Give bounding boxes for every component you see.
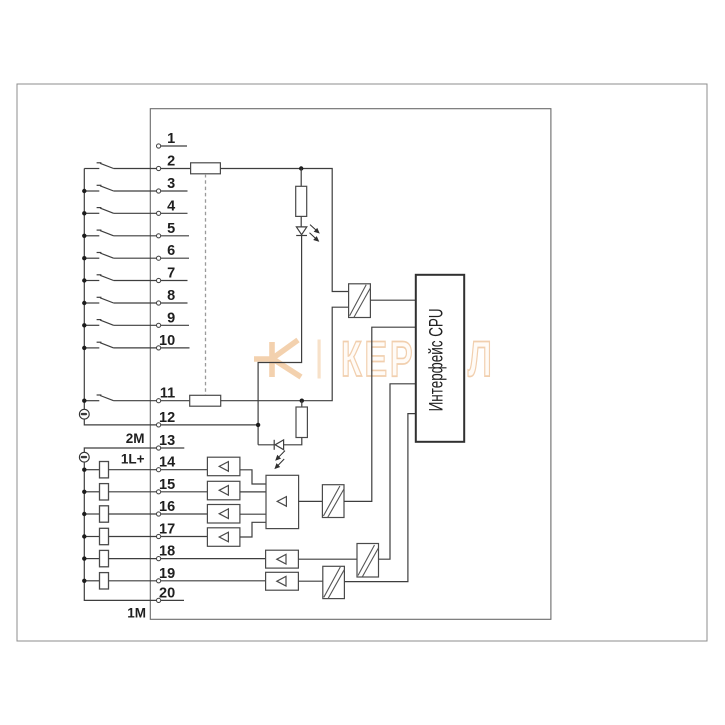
svg-text:19: 19 xyxy=(159,566,175,582)
wire U19 to barrier U4 xyxy=(298,580,322,582)
wire terminal 11 to resistor xyxy=(161,400,190,402)
optocoupler U19 (output 19) xyxy=(266,572,299,590)
terminal 10 stub xyxy=(161,347,190,349)
terminal 10 xyxy=(157,333,176,350)
wire terminal 12 to LED return xyxy=(161,424,258,426)
terminal 14 xyxy=(157,455,176,472)
junction on bus row 7 xyxy=(82,278,86,282)
input resistor R3 (channel 11) xyxy=(190,395,221,406)
wire U16 to driver xyxy=(240,513,266,515)
wire terminal 17 to optocoupler xyxy=(161,536,208,538)
wire R2 to LED xyxy=(300,216,302,227)
terminal 11 xyxy=(157,386,176,403)
status LED D1 (channel 2) xyxy=(296,227,307,236)
svg-text:18: 18 xyxy=(159,544,175,560)
wire terminal 2 to resistor xyxy=(161,168,191,170)
wire U2 to CPU interface xyxy=(344,327,416,501)
wire terminal 16 to optocoupler xyxy=(161,513,208,515)
wire U1 to CPU interface xyxy=(370,299,415,301)
svg-text:10: 10 xyxy=(159,333,175,349)
input bus (top, to M symbol) xyxy=(83,169,85,410)
wire U3 to CPU interface xyxy=(379,384,416,559)
CPU interface block xyxy=(416,275,464,442)
terminal 13 stub xyxy=(161,447,185,449)
switch contact S6 (input 7) xyxy=(84,275,156,281)
junction on 1L+ bus row 15 xyxy=(82,490,86,494)
node LED return / 2M xyxy=(256,423,260,427)
switch contact S9 (input 10) xyxy=(84,342,156,348)
svg-text:20: 20 xyxy=(159,585,175,601)
junction on 1L+ bus row 18 xyxy=(82,556,86,560)
wire U4 to CPU interface xyxy=(344,414,415,582)
terminal 20 stub xyxy=(161,599,184,601)
junction on bus row 3 xyxy=(82,189,86,193)
isolation barrier U4 (output 19) xyxy=(323,566,345,598)
wire R4 to LED D2 xyxy=(284,438,302,445)
junction on bus row 10 xyxy=(82,346,86,350)
terminal 3 xyxy=(157,176,176,193)
terminal 1 xyxy=(157,131,176,148)
switch contact S7 (input 8) xyxy=(84,297,156,303)
svg-text:2: 2 xyxy=(167,154,175,170)
svg-text:14: 14 xyxy=(159,455,175,471)
optocoupler U14 (output 14) xyxy=(207,457,240,476)
svg-text:17: 17 xyxy=(159,522,175,538)
wire U15 to driver xyxy=(240,491,266,493)
module box xyxy=(150,109,551,620)
svg-text:2M: 2M xyxy=(126,431,145,446)
terminal 4 stub xyxy=(161,212,188,214)
load resistor on output 16 xyxy=(84,513,99,515)
load resistor on output 14 xyxy=(84,469,99,471)
switch contact S1 (input 2) xyxy=(84,163,156,169)
junction on 1L+ bus row 14 xyxy=(82,468,86,472)
watermark logo xyxy=(254,340,301,377)
wire U18 to barrier U3 xyxy=(298,558,357,560)
junction on bus row 11 xyxy=(82,399,86,403)
terminal 9 stub xyxy=(161,324,189,326)
terminal 16 xyxy=(157,499,176,516)
terminal 8 stub xyxy=(161,302,188,304)
junction on bus row 6 xyxy=(82,256,86,260)
junction on bus row 9 xyxy=(82,323,86,327)
node channel 2 LED tap xyxy=(299,166,303,170)
svg-text:9: 9 xyxy=(167,310,175,326)
wire U14 to driver xyxy=(240,470,266,484)
svg-text:11: 11 xyxy=(160,386,175,402)
wire D1 cathode to 2M rail xyxy=(258,236,302,445)
switch contact S3 (input 4) xyxy=(84,208,156,214)
terminal 13 xyxy=(157,433,176,450)
junction on bus row 8 xyxy=(82,301,86,305)
svg-text:16: 16 xyxy=(159,499,175,515)
svg-text:13: 13 xyxy=(159,433,175,449)
terminal 18 xyxy=(157,544,176,561)
svg-text:15: 15 xyxy=(159,477,175,493)
LED series resistor R4 xyxy=(296,407,307,438)
load resistor on output 18 xyxy=(84,558,99,560)
LED D1 emission arrows xyxy=(310,225,319,241)
junction on 1L+ bus row 16 xyxy=(82,512,86,516)
terminal 5 xyxy=(157,221,176,238)
switch contact S8 (input 9) xyxy=(84,320,156,326)
wire terminal 19 to optocoupler xyxy=(161,580,266,582)
isolation barrier U2 (outputs 14..17) xyxy=(322,485,344,518)
svg-text:1L+: 1L+ xyxy=(121,452,145,467)
wire R3 to isolation barrier (lower) xyxy=(221,307,349,401)
optocoupler U17 (output 17) xyxy=(207,528,240,547)
svg-text:3: 3 xyxy=(167,176,175,192)
optocoupler U16 (output 16) xyxy=(207,505,240,524)
load resistor on output 17 xyxy=(84,536,99,538)
terminal 4 xyxy=(157,198,176,215)
wire M symbol to terminal 12 xyxy=(84,419,156,425)
wire terminal 18 to optocoupler xyxy=(161,558,266,560)
wire terminal 13 to L+ symbol xyxy=(84,448,156,452)
wire terminal 14 to optocoupler xyxy=(161,469,208,471)
junction on 1L+ bus row 17 xyxy=(82,534,86,538)
wire driver U5 to barrier U2 xyxy=(299,500,323,502)
terminal 20 xyxy=(157,585,176,602)
terminal 3 stub xyxy=(161,190,188,192)
output bus (bottom, 1L+) xyxy=(84,462,156,600)
terminal 1 stub xyxy=(161,145,187,147)
terminal 12 xyxy=(157,410,176,427)
junction on bus row 5 xyxy=(82,234,86,238)
terminal 15 xyxy=(157,477,176,494)
load resistor on output 15 xyxy=(84,491,99,493)
svg-text:5: 5 xyxy=(167,221,175,237)
terminal 5 stub xyxy=(161,235,189,237)
watermark divider xyxy=(318,340,321,379)
outer page border xyxy=(17,84,707,641)
junction on bus row 4 xyxy=(82,211,86,215)
terminal 2 xyxy=(157,154,176,171)
terminal 8 xyxy=(157,288,176,305)
dashed group link channel 2..11 xyxy=(205,174,207,395)
svg-text:7: 7 xyxy=(167,266,175,282)
terminal 7 xyxy=(157,266,176,283)
wire node to R4 xyxy=(301,401,303,407)
switch contact S5 (input 6) xyxy=(84,253,156,259)
M potential symbol (2M supply) xyxy=(79,409,89,419)
terminal 19 xyxy=(157,566,176,583)
terminal 7 stub xyxy=(161,280,188,282)
terminal 6 xyxy=(157,243,176,260)
svg-text:1: 1 xyxy=(167,131,175,147)
driver stage U5 (outputs 14..17) xyxy=(266,475,299,528)
wire node to R2 xyxy=(300,169,302,187)
LED series resistor R2 xyxy=(296,186,307,216)
terminal 9 xyxy=(157,310,176,327)
input resistor R1 (channel 2) xyxy=(191,163,221,174)
load resistor on output 19 xyxy=(84,580,99,582)
watermark text xyxy=(341,332,495,388)
status LED D2 (channel 11) xyxy=(274,440,283,450)
LED D2 emission arrows xyxy=(275,451,285,469)
terminal 6 stub xyxy=(161,257,189,259)
wire D2 cathode to 2M rail xyxy=(258,444,274,446)
terminal 17 xyxy=(157,522,176,539)
svg-text:8: 8 xyxy=(167,288,175,304)
optocoupler U15 (output 15) xyxy=(207,481,240,500)
wire R1 to isolation barrier (upper) xyxy=(220,169,348,292)
svg-text:1M: 1M xyxy=(127,606,146,621)
svg-text:Интерфейс CPU: Интерфейс CPU xyxy=(425,308,447,411)
node channel 11 LED tap xyxy=(300,399,304,403)
L+ potential symbol (1L+ supply) xyxy=(79,452,89,462)
wire terminal 15 to optocoupler xyxy=(161,491,208,493)
svg-text:12: 12 xyxy=(159,410,175,426)
isolation barrier U1 (inputs, galvanic separation) xyxy=(349,284,371,318)
optocoupler U18 (output 18) xyxy=(266,550,299,568)
svg-text:4: 4 xyxy=(167,198,175,214)
switch contact S2 (input 3) xyxy=(84,185,156,191)
switch contact S10 (input 11) xyxy=(84,395,156,401)
svg-text:6: 6 xyxy=(167,243,175,259)
switch contact S4 (input 5) xyxy=(84,230,156,236)
isolation barrier U3 (output 18) xyxy=(357,544,379,578)
junction on 1L+ bus row 19 xyxy=(82,579,86,583)
wire U17 to driver xyxy=(240,522,266,537)
